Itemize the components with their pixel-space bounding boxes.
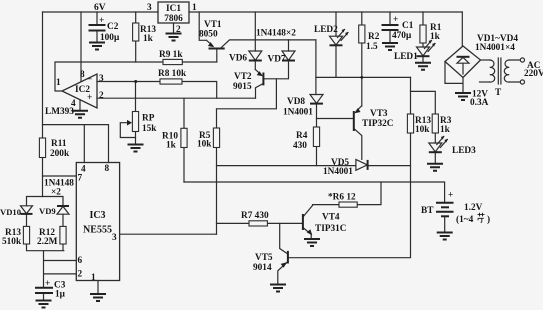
- svg-text:6V: 6V: [94, 3, 106, 13]
- svg-text:1.5: 1.5: [366, 42, 378, 52]
- svg-text:1N4148×2: 1N4148×2: [256, 28, 296, 38]
- svg-text:VD10: VD10: [0, 207, 21, 217]
- svg-text:2: 2: [78, 270, 83, 280]
- svg-text:1: 1: [91, 273, 96, 283]
- svg-text:VT5: VT5: [255, 253, 273, 263]
- svg-text:1.2V: 1.2V: [464, 203, 483, 213]
- svg-text:IC3: IC3: [89, 210, 105, 221]
- svg-text:3: 3: [147, 3, 152, 13]
- svg-text:VD6: VD6: [229, 54, 247, 64]
- svg-text:VD8: VD8: [287, 97, 305, 107]
- svg-text:T: T: [495, 88, 502, 98]
- svg-text:1N4001: 1N4001: [323, 167, 353, 177]
- svg-text:NE555: NE555: [83, 225, 112, 236]
- svg-text:7806: 7806: [164, 14, 183, 24]
- svg-text:10k: 10k: [415, 125, 430, 135]
- svg-text:VT1: VT1: [204, 20, 222, 30]
- svg-text:2: 2: [176, 25, 181, 35]
- svg-text:+: +: [45, 279, 50, 289]
- svg-text:R2: R2: [368, 32, 380, 42]
- svg-text:C2: C2: [107, 22, 119, 32]
- svg-text:510k: 510k: [2, 237, 22, 247]
- svg-text:×2: ×2: [51, 188, 61, 198]
- svg-text:3: 3: [112, 233, 117, 243]
- svg-text:1k: 1k: [143, 34, 154, 44]
- svg-text:R7 430: R7 430: [241, 211, 269, 221]
- svg-text:15k: 15k: [142, 124, 157, 134]
- svg-text:1N4001×4: 1N4001×4: [475, 43, 515, 53]
- svg-text:6: 6: [78, 256, 83, 266]
- svg-text:8: 8: [105, 164, 110, 174]
- svg-text:9014: 9014: [253, 263, 272, 273]
- svg-text:1: 1: [192, 3, 197, 13]
- svg-text:TIP31C: TIP31C: [315, 224, 347, 234]
- svg-text:9015: 9015: [233, 82, 252, 92]
- svg-text:1k: 1k: [440, 125, 451, 135]
- svg-text:TIP32C: TIP32C: [362, 119, 394, 129]
- svg-text:*R6 12: *R6 12: [328, 193, 356, 203]
- svg-text:RP: RP: [142, 114, 155, 124]
- svg-text:R11: R11: [51, 139, 67, 149]
- svg-text:VD9: VD9: [39, 206, 56, 216]
- svg-text:+: +: [448, 191, 453, 201]
- svg-text:220V: 220V: [524, 69, 543, 79]
- svg-text:IC1: IC1: [166, 4, 181, 14]
- svg-text:LED3: LED3: [452, 146, 476, 156]
- svg-text:+: +: [99, 16, 104, 26]
- svg-text:2.2M: 2.2M: [37, 237, 58, 247]
- svg-text:8050: 8050: [199, 30, 218, 40]
- svg-text:1: 1: [56, 78, 61, 88]
- svg-text:1k: 1k: [430, 32, 441, 42]
- svg-text:R8 10k: R8 10k: [158, 69, 187, 79]
- svg-text:R9 1k: R9 1k: [159, 50, 183, 60]
- svg-text:2: 2: [99, 91, 104, 101]
- svg-text:3: 3: [99, 74, 104, 84]
- svg-text:200k: 200k: [50, 149, 70, 159]
- svg-text:VT4: VT4: [322, 213, 340, 223]
- svg-text:1N4001: 1N4001: [283, 108, 313, 118]
- svg-text:VT3: VT3: [370, 109, 388, 119]
- svg-text:1k: 1k: [166, 141, 177, 151]
- svg-text:1μ: 1μ: [55, 290, 66, 300]
- svg-text:C1: C1: [402, 21, 414, 31]
- svg-text:VT2: VT2: [234, 72, 252, 82]
- svg-text:470μ: 470μ: [392, 31, 412, 41]
- svg-text:−: −: [87, 75, 92, 85]
- svg-text:430: 430: [293, 141, 307, 151]
- svg-text:0.3A: 0.3A: [470, 98, 489, 108]
- svg-text:+: +: [393, 15, 398, 25]
- svg-text:10k: 10k: [197, 140, 212, 150]
- svg-text:R4: R4: [296, 131, 308, 141]
- svg-text:LED1: LED1: [394, 52, 418, 62]
- svg-text:): ): [487, 214, 490, 225]
- svg-text:100μ: 100μ: [100, 33, 120, 43]
- svg-text:BT: BT: [421, 206, 434, 216]
- svg-text:(1~4: (1~4: [456, 214, 474, 225]
- svg-text:LED2: LED2: [314, 25, 338, 35]
- svg-text:VD7: VD7: [268, 55, 286, 65]
- svg-text:LM393: LM393: [45, 107, 74, 117]
- svg-text:+: +: [87, 93, 92, 103]
- svg-text:8: 8: [80, 70, 85, 80]
- svg-text:7: 7: [78, 174, 83, 184]
